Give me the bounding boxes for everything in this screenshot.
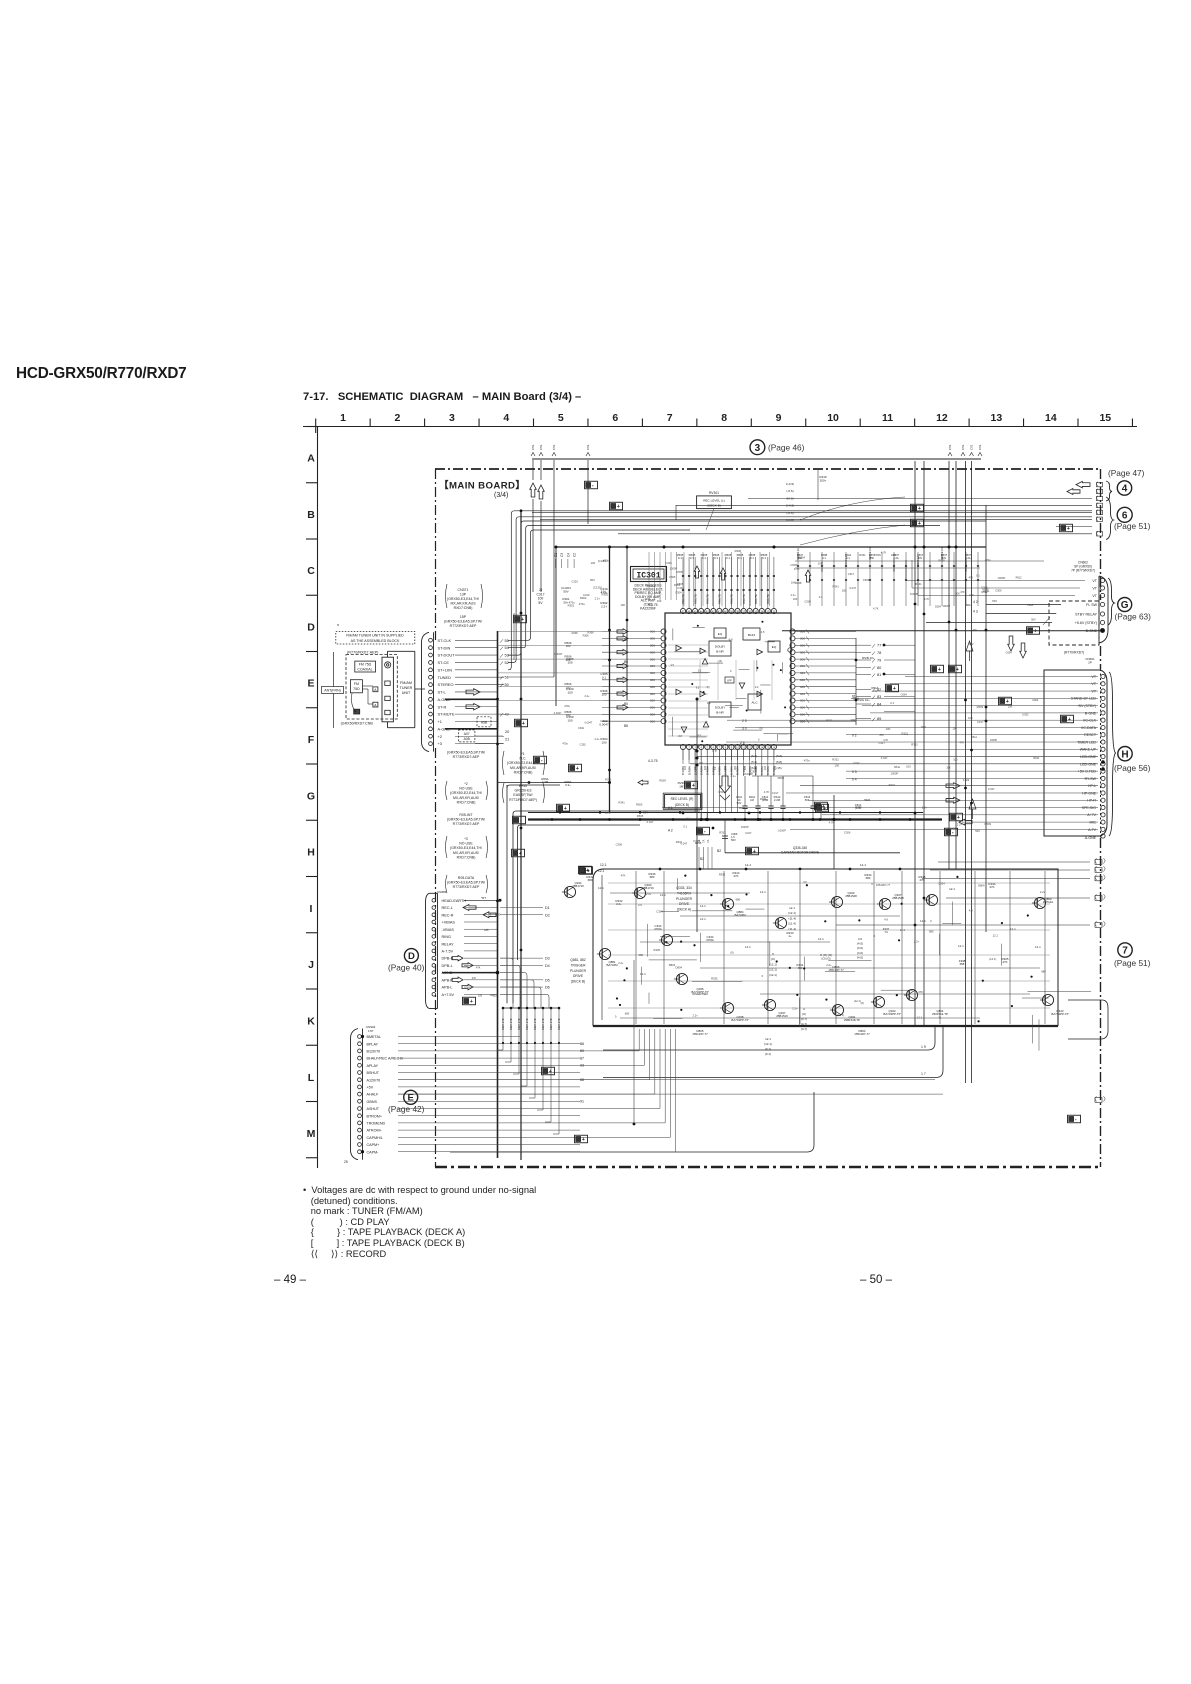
svg-text:47K: 47K (969, 576, 974, 579)
svg-text:2.2+: 2.2+ (595, 738, 600, 741)
svg-text:87: 87 (580, 1056, 584, 1060)
svg-text:TIMER LED: TIMER LED (1077, 740, 1096, 744)
svg-text:1000P: 1000P (669, 566, 677, 570)
svg-text:R338: R338 (795, 581, 802, 585)
svg-text:RMUTE: RMUTE (693, 594, 697, 604)
svg-text:-: - (592, 483, 594, 489)
svg-text:000: 000 (650, 637, 655, 641)
svg-text:(GRX50-E3,EA5,SP,TW/: (GRX50-E3,EA5,SP,TW/ (444, 620, 482, 624)
svg-text:(GRX50/RXD7:CNB: (GRX50/RXD7:CNB (341, 721, 374, 725)
svg-text:0.1: 0.1 (726, 556, 730, 560)
svg-text:12.1: 12.1 (818, 937, 824, 941)
svg-text:ST-CLK: ST-CLK (438, 638, 452, 643)
svg-text:ASHUT: ASHUT (367, 1107, 380, 1111)
svg-text:10K: 10K (946, 767, 951, 770)
svg-text:*3: *3 (464, 837, 467, 841)
svg-text:+: + (617, 504, 620, 510)
svg-text:000: 000 (650, 664, 655, 668)
svg-text:680: 680 (638, 953, 643, 957)
svg-text:FM: FM (354, 682, 359, 686)
svg-text:0.1: 0.1 (488, 914, 492, 917)
svg-text:BTROM+: BTROM+ (367, 1114, 382, 1118)
svg-text:A+7V: A+7V (1087, 813, 1096, 817)
svg-text:000: 000 (734, 765, 737, 770)
svg-text:CS1: CS1 (586, 444, 590, 450)
svg-text:2: 2 (395, 412, 401, 424)
svg-text:APB-R: APB-R (442, 978, 454, 982)
svg-text:86: 86 (580, 1042, 584, 1046)
svg-text:000: 000 (650, 650, 655, 654)
svg-text:R341: R341 (760, 797, 767, 801)
svg-text:CS1: CS1 (531, 444, 535, 450)
svg-text:100: 100 (566, 644, 571, 648)
svg-text:470u: 470u (644, 597, 650, 601)
svg-text:RXD7:CNB): RXD7:CNB) (514, 770, 533, 774)
svg-text:2.2+: 2.2+ (792, 1007, 798, 1011)
svg-text:(Page 63): (Page 63) (1115, 612, 1152, 622)
svg-text:4700u: 4700u (706, 938, 714, 942)
svg-text:BHALF/REC A/REC B: BHALF/REC A/REC B (367, 1057, 404, 1061)
svg-text:47K: 47K (918, 990, 923, 994)
svg-text:12-1: 12-1 (745, 863, 751, 867)
svg-text:000: 000 (800, 671, 805, 675)
svg-text:50V: 50V (975, 829, 980, 833)
svg-text:MX,AR,KR,AUS/: MX,AR,KR,AUS/ (453, 796, 479, 800)
svg-text:470u: 470u (564, 705, 570, 708)
svg-text:10K: 10K (657, 599, 662, 603)
svg-text:000: 000 (800, 699, 805, 703)
svg-text:〉: 〉 (1103, 875, 1109, 882)
svg-text:2 6: 2 6 (740, 741, 745, 745)
svg-text:C604: C604 (1027, 604, 1034, 607)
svg-text:(0.1): (0.1) (765, 1052, 771, 1056)
svg-text:000: 000 (800, 678, 805, 682)
svg-text:C304: C304 (675, 590, 682, 594)
svg-text:6: 6 (612, 412, 618, 424)
svg-text:A5B: A5B (481, 721, 488, 725)
svg-text:50: 50 (505, 682, 510, 687)
svg-text:A-7V: A-7V (1088, 828, 1097, 832)
svg-text:R331: R331 (676, 840, 683, 844)
svg-text:RMUTE: RMUTE (742, 594, 746, 604)
svg-text:D6: D6 (545, 986, 550, 990)
svg-text:0: 0 (874, 934, 876, 938)
svg-text:LED-GNE: LED-GNE (1080, 755, 1096, 759)
svg-text:2: 2 (688, 745, 690, 749)
svg-text:(4.0): (4.0) (857, 955, 863, 959)
svg-text:6.3: 6.3 (696, 686, 700, 689)
svg-text:000: 000 (754, 765, 757, 770)
svg-text:PLUNGER: PLUNGER (570, 969, 587, 973)
svg-text:F: F (308, 734, 315, 746)
svg-text:DPB-L: DPB-L (442, 964, 453, 968)
svg-text:1.1: 1.1 (697, 734, 701, 737)
svg-text:VT: VT (1092, 587, 1097, 591)
svg-text:+: + (938, 667, 941, 673)
svg-text:(Page 47): (Page 47) (1108, 468, 1145, 478)
svg-text:2.2+: 2.2+ (692, 1014, 698, 1018)
svg-text:R327 47K: R327 47K (549, 1018, 553, 1030)
svg-text:+: + (564, 806, 567, 812)
svg-text:L: L (308, 1072, 315, 1084)
svg-text:47K: 47K (972, 629, 977, 632)
svg-text:VT: VT (1091, 675, 1096, 679)
svg-text:R612: R612 (966, 604, 973, 607)
svg-text:78: 78 (877, 650, 881, 655)
svg-text:BPLAY: BPLAY (367, 1042, 379, 1046)
svg-text:12.1: 12.1 (700, 917, 706, 921)
svg-text:INVERTER: INVERTER (692, 992, 708, 996)
svg-text:155133?-77: 155133?-77 (692, 1032, 708, 1036)
svg-text:0: 0 (803, 1007, 805, 1011)
svg-text:0.1: 0.1 (738, 556, 742, 560)
svg-text:(6.4): (6.4) (751, 754, 757, 758)
svg-text:1000P: 1000P (745, 772, 753, 776)
svg-text:C306: C306 (844, 830, 851, 834)
svg-text:12.1: 12.1 (900, 928, 906, 932)
svg-text:470u: 470u (569, 600, 575, 604)
svg-text:+5V: +5V (367, 1086, 374, 1090)
svg-text:B.RMA: B.RMA (687, 766, 691, 775)
svg-text:0.1: 0.1 (822, 557, 826, 560)
svg-text:(0): (0) (803, 880, 806, 884)
svg-text:(GRX50-E3,E44,TH/: (GRX50-E3,E44,TH/ (450, 846, 482, 850)
svg-text:+: + (549, 1069, 552, 1075)
svg-text:17P: 17P (368, 1029, 373, 1033)
svg-text:100: 100 (601, 693, 606, 697)
svg-text:C310: C310 (583, 593, 590, 597)
svg-text:R306: R306 (572, 632, 579, 635)
svg-text:B8: B8 (624, 724, 628, 728)
svg-text:RMUTE: RMUTE (718, 594, 722, 604)
svg-text:D3: D3 (545, 957, 550, 961)
svg-text:D804: D804 (676, 965, 683, 969)
svg-text:100: 100 (953, 758, 958, 761)
svg-text:R341: R341 (832, 584, 839, 588)
svg-text:0.1: 0.1 (686, 816, 690, 820)
svg-text:0-0.8): 0-0.8) (786, 518, 794, 522)
svg-text:0.047: 0.047 (647, 820, 654, 824)
svg-text:000: 000 (800, 657, 805, 661)
svg-text:C505: C505 (718, 790, 725, 794)
svg-text:2.2+: 2.2+ (618, 961, 624, 965)
svg-text:IIC-DATA: IIC-DATA (1081, 726, 1096, 730)
svg-text:VT: VT (1092, 594, 1097, 598)
svg-text:C505: C505 (804, 600, 811, 604)
svg-text:D4: D4 (545, 964, 550, 968)
svg-text:(4.7): (4.7) (801, 1017, 807, 1021)
svg-text:R611: R611 (1033, 757, 1039, 760)
svg-text:100: 100 (567, 719, 572, 723)
svg-text:RV301: RV301 (709, 491, 719, 495)
svg-text:680: 680 (588, 878, 593, 882)
svg-text:C334: C334 (938, 881, 945, 885)
svg-text:〉: 〉 (1103, 859, 1109, 866)
svg-text:R331: R331 (826, 718, 833, 722)
svg-text:C604: C604 (901, 693, 908, 696)
svg-text:R327 47K: R327 47K (557, 1018, 561, 1030)
svg-text:2N?14A: 2N?14A (1043, 900, 1054, 904)
svg-text:47K: 47K (476, 967, 481, 970)
svg-text:RY-SW: RY-SW (1085, 777, 1097, 781)
svg-text:0.1: 0.1 (702, 556, 706, 560)
svg-text:7: 7 (667, 412, 673, 424)
svg-text:000: 000 (650, 657, 655, 661)
svg-text:13: 13 (991, 412, 1003, 424)
svg-text:(12.1): (12.1) (854, 999, 861, 1003)
svg-text:2 5: 2 5 (742, 719, 747, 723)
svg-text:0.1: 0.1 (683, 824, 687, 828)
svg-text:TRIGGER: TRIGGER (570, 963, 586, 967)
svg-text:RESET: RESET (1084, 733, 1097, 737)
svg-text:100: 100 (968, 716, 973, 720)
svg-text:A+7.5V: A+7.5V (442, 993, 455, 997)
svg-text:12.1: 12.1 (745, 945, 751, 949)
svg-text:-: - (952, 830, 954, 836)
svg-text:5: 5 (707, 745, 709, 749)
svg-text:+: + (519, 851, 522, 857)
svg-text:2.2+: 2.2+ (922, 806, 928, 810)
svg-text:4: 4 (1122, 484, 1128, 495)
svg-text:GRX50-E3: GRX50-E3 (515, 789, 532, 793)
svg-text:2P: 2P (1088, 661, 1092, 665)
svg-text:RXD7:CNB): RXD7:CNB) (457, 855, 476, 859)
svg-text:C-6.5): C-6.5) (786, 482, 794, 486)
svg-text:2.2+: 2.2+ (1040, 890, 1046, 894)
svg-text:D804: D804 (669, 963, 676, 967)
svg-text:-: - (1075, 1117, 1077, 1123)
svg-text:APLAY: APLAY (367, 1064, 379, 1068)
svg-text:4 2: 4 2 (973, 600, 978, 604)
svg-text:3: 3 (449, 412, 455, 424)
svg-text:(5.8): (5.8) (776, 760, 782, 764)
svg-text:(GRX50-E3,EA5,SP,TW/: (GRX50-E3,EA5,SP,TW/ (447, 818, 485, 822)
svg-text:+5V (STBY): +5V (STBY) (1077, 704, 1096, 708)
svg-text:0: 0 (615, 1015, 617, 1019)
svg-text:+: + (1034, 629, 1037, 635)
svg-text:000: 000 (800, 685, 805, 689)
svg-text:(3/4): (3/4) (494, 492, 508, 499)
svg-text:2.2+: 2.2+ (914, 940, 920, 944)
svg-text:FM/AM: FM/AM (400, 681, 412, 685)
svg-text:100: 100 (793, 597, 798, 601)
svg-text:79: 79 (877, 658, 881, 663)
svg-text:47K: 47K (960, 591, 965, 594)
svg-text:4.9: 4.9 (638, 903, 642, 907)
svg-text:CAPSTAN MOTOR DRIVE: CAPSTAN MOTOR DRIVE (781, 851, 819, 855)
svg-text:1000P: 1000P (942, 604, 950, 608)
svg-text:(DECK A): (DECK A) (677, 908, 691, 912)
svg-text:BSHUT: BSHUT (367, 1071, 380, 1075)
svg-text:ANT(FRN): ANT(FRN) (324, 689, 341, 693)
svg-text:Q881, 882: Q881, 882 (570, 958, 586, 962)
svg-text:R327 47K: R327 47K (525, 1018, 529, 1030)
svg-text:0.1: 0.1 (678, 556, 682, 560)
svg-text:12: 12 (936, 412, 948, 424)
svg-text:A-7.5V: A-7.5V (442, 950, 454, 954)
svg-text:UNIT: UNIT (402, 691, 411, 695)
svg-text:(5.4): (5.4) (751, 760, 757, 764)
svg-text:55K: 55K (870, 557, 875, 560)
svg-text:4700u: 4700u (654, 927, 662, 931)
svg-text:R335: R335 (711, 977, 718, 981)
svg-text:R331: R331 (605, 778, 612, 782)
svg-text:(Page 46): (Page 46) (768, 443, 805, 453)
svg-text:100: 100 (834, 763, 839, 767)
svg-text:4-3.75: 4-3.75 (648, 759, 658, 763)
svg-text:12.1: 12.1 (598, 869, 604, 873)
svg-text:H: H (307, 847, 315, 859)
svg-text:COAXIAL: COAXIAL (357, 667, 372, 671)
svg-text:C306: C306 (616, 842, 623, 846)
svg-text:C334: C334 (656, 910, 663, 914)
svg-text:C310: C310 (571, 580, 578, 584)
svg-text:A120/70: A120/70 (367, 1078, 381, 1082)
svg-text:47K: 47K (989, 885, 994, 889)
svg-text:R306: R306 (583, 635, 590, 638)
svg-text:HP-R: HP-R (1087, 799, 1096, 803)
svg-text:E: E (307, 678, 314, 690)
svg-text:0: 0 (930, 919, 932, 923)
svg-text:(0): (0) (719, 660, 722, 663)
svg-text:+: + (753, 849, 756, 855)
svg-text:B: B (307, 509, 315, 521)
svg-text:R50B 2.2M: R50B 2.2M (893, 559, 896, 572)
svg-text:D2: D2 (545, 913, 550, 917)
svg-text:CAPMH/L: CAPMH/L (367, 1136, 383, 1140)
svg-text:HP-L: HP-L (1088, 784, 1096, 788)
svg-text:47K: 47K (733, 874, 738, 878)
svg-text:CS1: CS1 (552, 444, 556, 450)
svg-text:C317: C317 (848, 572, 855, 576)
svg-text:+: + (522, 721, 525, 727)
svg-text:(5.8): (5.8) (776, 754, 782, 758)
svg-text:25B1716: 25B1716 (572, 884, 584, 888)
svg-text:M: M (307, 1128, 316, 1140)
svg-text:000: 000 (800, 637, 805, 641)
svg-text:Q333, 334: Q333, 334 (676, 886, 692, 890)
svg-text:*R?: *R? (481, 896, 486, 900)
svg-text:C604: C604 (851, 719, 858, 722)
svg-text:C505: C505 (677, 582, 684, 586)
svg-text:0.1: 0.1 (819, 595, 823, 599)
svg-text:REC-R: REC-R (442, 913, 454, 917)
svg-text:R612: R612 (982, 591, 989, 594)
svg-text:(0): (0) (707, 686, 710, 689)
svg-text:〉: 〉 (1103, 867, 1109, 874)
svg-text:+: + (582, 1137, 585, 1143)
svg-text:50V: 50V (918, 557, 923, 560)
svg-text:C604: C604 (853, 697, 860, 700)
svg-text:0.0047: 0.0047 (555, 653, 563, 656)
svg-text:AS THE ASSEMBLED BLOCK: AS THE ASSEMBLED BLOCK (351, 639, 400, 643)
svg-text:(O) (O): (O) (O) (821, 956, 830, 960)
svg-text:47K: 47K (621, 874, 626, 878)
svg-text:14: 14 (1045, 412, 1057, 424)
svg-text:2.2+: 2.2+ (730, 774, 736, 778)
svg-text:1000P: 1000P (890, 772, 898, 776)
svg-text:R335: R335 (654, 948, 661, 952)
svg-text:(Page 51): (Page 51) (1114, 958, 1151, 968)
svg-text:R306: R306 (588, 631, 595, 634)
svg-text:(Page 40): (Page 40) (388, 963, 425, 973)
svg-text:0.1: 0.1 (762, 556, 766, 560)
svg-text:A 2: A 2 (668, 829, 673, 833)
svg-text:12.1: 12.1 (1035, 945, 1041, 949)
svg-text:100: 100 (567, 661, 572, 665)
svg-text:RMUTE: RMUTE (754, 594, 758, 604)
svg-text:100: 100 (744, 765, 747, 770)
svg-text:2.2+: 2.2+ (601, 590, 607, 594)
svg-text:R331: R331 (902, 732, 909, 736)
svg-text:000: 000 (650, 685, 655, 689)
svg-text:MX,AR,KR,AUS: MX,AR,KR,AUS (450, 602, 476, 606)
svg-text:R327 47K: R327 47K (517, 1018, 521, 1030)
svg-text:91: 91 (580, 1100, 584, 1104)
svg-text:〉: 〉 (1103, 922, 1109, 929)
svg-text:Q336-345: Q336-345 (793, 846, 807, 850)
svg-text:(R770/RXD7:AEP): (R770/RXD7:AEP) (347, 650, 379, 654)
svg-text:C317: C317 (977, 720, 984, 724)
svg-text:ALC: ALC (751, 701, 758, 705)
svg-text:25B1548: 25B1548 (892, 896, 904, 900)
svg-text:R331: R331 (889, 783, 896, 787)
svg-text:10K: 10K (886, 727, 891, 731)
svg-text:(GRX50-E3,EA5,SP,TW/: (GRX50-E3,EA5,SP,TW/ (447, 751, 485, 755)
svg-text:0.022: 0.022 (853, 762, 860, 765)
svg-text:(12.1): (12.1) (769, 973, 777, 977)
svg-text:*2: *2 (464, 782, 467, 786)
svg-text:0 2: 0 2 (852, 734, 857, 738)
svg-text:4.7K: 4.7K (873, 607, 879, 611)
svg-text:000: 000 (650, 630, 655, 634)
svg-text:R327 47K: R327 47K (541, 1018, 545, 1030)
svg-text:4: 4 (700, 745, 702, 749)
svg-text:0.022: 0.022 (1022, 714, 1029, 717)
svg-text:C505: C505 (791, 563, 798, 567)
svg-text:47K: 47K (919, 878, 924, 882)
svg-text:470u: 470u (579, 602, 585, 606)
svg-text:1000P: 1000P (741, 825, 749, 829)
svg-text:B-GNE: B-GNE (1085, 711, 1097, 715)
svg-text:STEREO: STEREO (438, 682, 454, 687)
svg-text:0: 0 (772, 952, 774, 956)
svg-text:9: 9 (731, 745, 733, 749)
svg-text:12.1: 12.1 (640, 972, 646, 976)
svg-text:200+: 200+ (820, 478, 827, 482)
svg-text:J: J (308, 959, 314, 971)
svg-text:R773/RXD7:AEP: R773/RXD7:AEP (453, 822, 480, 826)
svg-text:MIC: MIC (1089, 821, 1096, 825)
svg-text:MX,AR,KR,AUS/: MX,AR,KR,AUS/ (510, 766, 536, 770)
svg-text:6: 6 (1122, 510, 1128, 521)
svg-text:RS/B 10+: RS/B 10+ (862, 656, 875, 660)
svg-text:R509: R509 (985, 822, 992, 826)
svg-text:RELAY: RELAY (442, 942, 455, 946)
svg-text:R772/RXD7:AEP: R772/RXD7:AEP (450, 624, 477, 628)
svg-text:2.2+: 2.2+ (957, 823, 963, 827)
svg-text:9: 9 (776, 412, 782, 424)
svg-text:B143: B143 (748, 633, 756, 637)
svg-text:1 9: 1 9 (921, 1045, 926, 1049)
svg-text:0.1: 0.1 (846, 557, 850, 560)
svg-text:CS1: CS1 (978, 444, 982, 450)
svg-text:B4: B4 (624, 638, 628, 642)
svg-text:000: 000 (650, 692, 655, 696)
svg-text:(12.1): (12.1) (769, 962, 777, 966)
svg-text:ST-MUTE: ST-MUTE (438, 712, 455, 717)
svg-text:100: 100 (489, 994, 494, 997)
